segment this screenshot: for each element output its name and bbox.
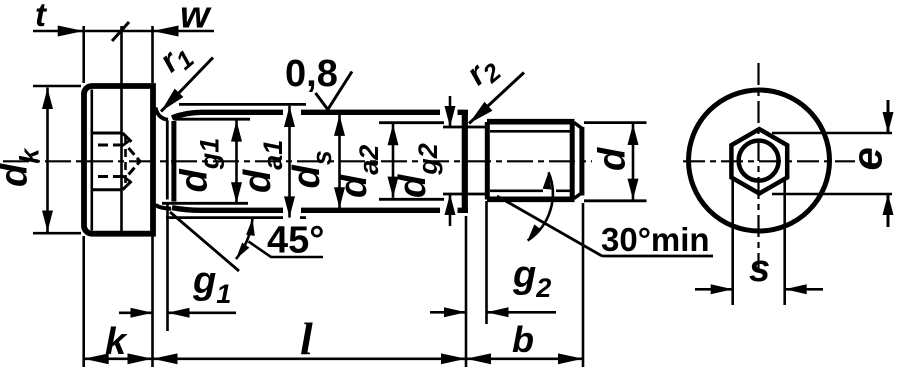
svg-text:0,8: 0,8	[285, 53, 338, 95]
svg-text:e: e	[844, 147, 891, 170]
svg-text:k: k	[105, 321, 128, 363]
svg-text:30°min: 30°min	[601, 221, 710, 258]
svg-text:45°: 45°	[267, 220, 324, 262]
svg-text:b: b	[512, 319, 534, 360]
svg-text:l: l	[300, 313, 313, 364]
svg-text:s: s	[749, 248, 770, 290]
svg-text:w: w	[180, 0, 212, 37]
svg-text:d: d	[592, 147, 634, 171]
